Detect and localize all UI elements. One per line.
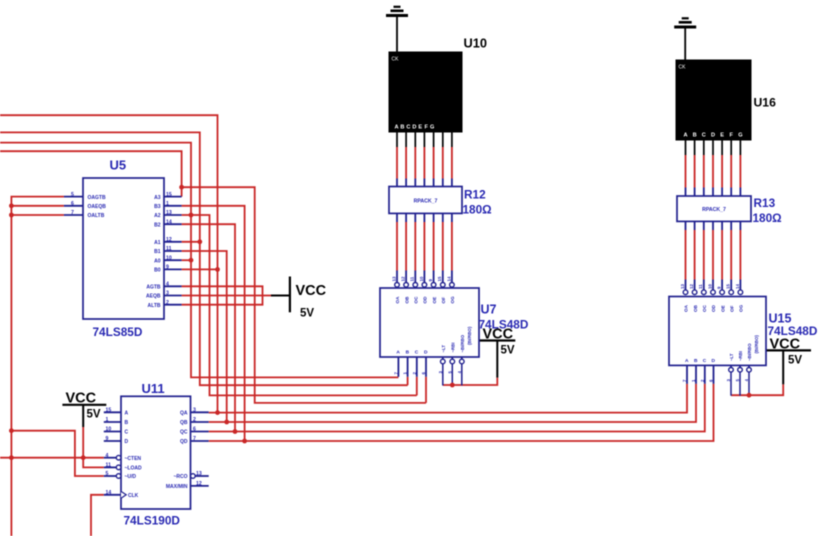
- svg-text:9: 9: [428, 279, 433, 282]
- 7-segment display U10 body: [389, 52, 462, 132]
- svg-text:E: E: [418, 125, 422, 131]
- resistor R13 labels: [753, 196, 782, 225]
- U7 value label 74LS48D: [479, 318, 529, 332]
- wire U5 pin6: [11, 205, 64, 207]
- svg-text:AEQB: AEQB: [146, 294, 161, 300]
- wire bus4 net A3: [0, 151, 182, 196]
- svg-text:F: F: [425, 125, 429, 131]
- svg-text:B3: B3: [154, 204, 161, 210]
- svg-text:B: B: [406, 350, 410, 356]
- svg-text:OE: OE: [432, 297, 437, 304]
- svg-text:~BI/RBO: ~BI/RBO: [747, 343, 752, 361]
- svg-text:F: F: [729, 133, 733, 139]
- U11 value label 74LS190D: [124, 514, 181, 528]
- svg-text:QB: QB: [180, 420, 188, 426]
- svg-text:3: 3: [193, 408, 196, 414]
- svg-text:14: 14: [446, 276, 451, 281]
- wire U7 controls to VCC: [443, 364, 498, 386]
- svg-text:R13: R13: [754, 196, 776, 210]
- wire bus1 net QA to off-page: [0, 115, 218, 412]
- wire QA row to U15 pin A: [209, 384, 687, 413]
- resistor R13 180ohm pack body: [677, 196, 751, 221]
- svg-text:6: 6: [193, 427, 196, 433]
- svg-text:C: C: [415, 350, 419, 356]
- svg-text:CK: CK: [392, 57, 400, 63]
- wire U5 pin5 to left vertical: [11, 197, 64, 536]
- svg-text:180Ω: 180Ω: [463, 203, 492, 217]
- svg-text:1: 1: [166, 201, 169, 207]
- svg-text:D: D: [711, 133, 715, 139]
- svg-text:15: 15: [437, 276, 442, 281]
- svg-text:14: 14: [735, 284, 740, 289]
- svg-text:9: 9: [717, 286, 722, 289]
- resistor R12 180ohm pack body: [389, 187, 462, 214]
- U11 pin labels and numbers: [106, 408, 202, 500]
- IC U15 74LS48D decoder body and pins: [669, 290, 766, 384]
- wire B1 row to QB: [182, 251, 227, 422]
- svg-text:A: A: [685, 358, 689, 364]
- wire B0 row: [182, 268, 218, 270]
- wire to U11 ~U/D: [11, 431, 103, 476]
- svg-text:U11: U11: [142, 381, 165, 396]
- svg-text:~BI/RBO: ~BI/RBO: [460, 334, 465, 352]
- svg-text:14: 14: [166, 219, 172, 225]
- wire A0 row: [182, 259, 191, 261]
- svg-text:U7: U7: [481, 303, 497, 317]
- U7 pin labels and numbers: [391, 276, 472, 374]
- svg-text:OG: OG: [739, 304, 744, 312]
- svg-text:~U/D: ~U/D: [125, 474, 137, 480]
- U16 reference label: [754, 96, 777, 110]
- svg-text:OAEQB: OAEQB: [88, 204, 107, 210]
- svg-text:CLK: CLK: [128, 493, 139, 499]
- U5 value label 74LS85D: [93, 325, 143, 339]
- svg-text:VCC: VCC: [66, 390, 97, 406]
- wire QD row to U15 pin D: [209, 384, 714, 441]
- svg-text:7: 7: [71, 210, 74, 216]
- svg-text:D: D: [424, 350, 428, 356]
- svg-text:74LS48D: 74LS48D: [479, 318, 529, 332]
- svg-text:7: 7: [193, 436, 196, 442]
- svg-text:OF: OF: [729, 305, 734, 312]
- svg-text:D: D: [712, 358, 716, 364]
- svg-text:OB: OB: [693, 304, 698, 312]
- wire bus3 net A2/A0 to U7 pin A: [0, 143, 398, 378]
- svg-text:ALTB: ALTB: [148, 303, 161, 309]
- svg-text:B2: B2: [154, 222, 161, 228]
- wire A3 branch to U7 pin D: [182, 187, 426, 403]
- svg-text:A0: A0: [154, 258, 161, 264]
- U5 pin labels and numbers: [71, 192, 172, 309]
- svg-text:B: B: [400, 125, 404, 131]
- svg-text:~CTEN: ~CTEN: [125, 456, 142, 462]
- svg-text:B: B: [694, 358, 698, 364]
- svg-text:G: G: [430, 125, 434, 131]
- svg-text:AGTB: AGTB: [146, 285, 161, 291]
- svg-text:13: 13: [196, 471, 202, 477]
- svg-text:10: 10: [166, 255, 172, 261]
- U15 reference label: [769, 312, 792, 326]
- wire to U11 ~CTEN: [0, 457, 104, 459]
- svg-text:R12: R12: [464, 188, 486, 202]
- svg-text:74LS190D: 74LS190D: [124, 514, 181, 528]
- svg-text:~LT: ~LT: [729, 353, 734, 361]
- svg-text:~LOAD: ~LOAD: [125, 466, 142, 472]
- svg-text:10: 10: [707, 284, 712, 289]
- svg-text:13: 13: [391, 276, 396, 281]
- svg-text:2: 2: [193, 417, 196, 423]
- svg-text:~RBI: ~RBI: [738, 351, 743, 361]
- svg-text:CK: CK: [679, 65, 687, 71]
- wire U15 controls to VCC: [731, 372, 783, 396]
- svg-text:3: 3: [166, 291, 169, 297]
- wire bus2 net A1 to U7 pin B: [0, 132, 408, 385]
- svg-text:12: 12: [196, 481, 202, 487]
- U15 pin labels and numbers: [680, 284, 759, 382]
- svg-text:1: 1: [106, 417, 109, 423]
- wire B2 row to QC: [182, 224, 235, 431]
- svg-text:OC: OC: [702, 304, 707, 312]
- svg-text:13: 13: [166, 210, 172, 216]
- svg-text:A: A: [125, 411, 129, 417]
- svg-text:4: 4: [106, 453, 109, 459]
- svg-text:RPACK_7: RPACK_7: [702, 207, 726, 213]
- svg-text:13: 13: [680, 284, 685, 289]
- wire U5 pin7: [11, 214, 64, 216]
- wire QC row to U15 pin C: [209, 384, 705, 432]
- svg-text:74LS85D: 74LS85D: [93, 325, 143, 339]
- svg-text:A: A: [396, 350, 400, 356]
- svg-text:QD: QD: [180, 439, 188, 445]
- wire B3 row to QD: [182, 206, 245, 441]
- svg-text:11: 11: [698, 284, 703, 289]
- svg-text:5V: 5V: [501, 345, 515, 357]
- svg-text:E: E: [720, 133, 724, 139]
- VCC symbol at U7: [479, 327, 515, 378]
- U11 reference label: [142, 381, 165, 396]
- svg-text:QC: QC: [180, 430, 188, 436]
- IC U7 74LS48D decoder body and pins: [380, 283, 479, 377]
- svg-text:C: C: [406, 125, 410, 131]
- svg-text:9: 9: [166, 265, 169, 271]
- U5 reference label: [110, 158, 127, 173]
- svg-text:OD: OD: [423, 296, 428, 304]
- svg-text:C: C: [702, 133, 706, 139]
- svg-text:G: G: [738, 133, 742, 139]
- svg-text:5V: 5V: [788, 355, 802, 367]
- svg-text:A1: A1: [154, 240, 161, 246]
- 7-segment display U16 body: [676, 60, 751, 140]
- svg-text:12: 12: [166, 237, 172, 243]
- svg-text:74LS48D: 74LS48D: [768, 324, 818, 338]
- svg-text:A2: A2: [154, 213, 161, 219]
- svg-text:MAX/MIN: MAX/MIN: [166, 484, 188, 490]
- svg-text:OD: OD: [711, 304, 716, 312]
- svg-text:OC: OC: [414, 296, 419, 304]
- svg-text:4: 4: [166, 282, 169, 288]
- U15 value label 74LS48D: [768, 324, 818, 338]
- svg-text:A: A: [394, 125, 398, 131]
- svg-text:A3: A3: [154, 195, 161, 201]
- svg-text:C: C: [703, 358, 707, 364]
- svg-text:(BI/RBO): (BI/RBO): [754, 335, 759, 354]
- svg-text:U16: U16: [754, 96, 777, 110]
- svg-text:B0: B0: [154, 268, 161, 274]
- svg-text:D: D: [125, 439, 129, 445]
- svg-text:B: B: [125, 420, 129, 426]
- svg-text:OF: OF: [441, 297, 446, 304]
- svg-text:D: D: [412, 125, 416, 131]
- svg-text:B: B: [693, 133, 697, 139]
- U7 reference label: [481, 303, 497, 317]
- svg-text:A: A: [683, 133, 687, 139]
- svg-text:5V: 5V: [300, 308, 314, 320]
- wire to U11 CLK: [91, 495, 104, 536]
- wire QB row to U15 pin B: [209, 384, 696, 422]
- svg-text:11: 11: [410, 276, 415, 281]
- svg-text:QA: QA: [180, 411, 188, 417]
- svg-text:15: 15: [106, 408, 112, 414]
- op-amp U5 74LS85D comparator body and pins: [64, 178, 182, 319]
- svg-text:OB: OB: [404, 296, 409, 304]
- wire AGTB-AEQB-ALTB bracket: [182, 286, 271, 304]
- svg-text:5: 5: [106, 471, 109, 477]
- svg-text:9: 9: [106, 436, 109, 442]
- svg-text:5: 5: [71, 192, 74, 198]
- svg-text:~RBI: ~RBI: [450, 343, 455, 353]
- svg-text:OALTB: OALTB: [88, 213, 105, 219]
- U10 reference label: [464, 36, 487, 51]
- svg-text:OA: OA: [684, 304, 689, 312]
- wire A1 row: [182, 241, 200, 243]
- svg-text:OE: OE: [720, 305, 725, 312]
- svg-text:15: 15: [726, 284, 731, 289]
- VCC symbol near U5: [271, 277, 327, 320]
- svg-text:14: 14: [106, 490, 112, 496]
- svg-text:(BI/RBO): (BI/RBO): [467, 326, 472, 345]
- wire U16 to R13 to U15 segment columns: [686, 140, 741, 289]
- svg-text:2: 2: [166, 300, 169, 306]
- VCC symbol at U11: [62, 390, 106, 427]
- svg-text:U10: U10: [464, 36, 487, 51]
- svg-text:C: C: [125, 430, 129, 436]
- svg-text:11: 11: [106, 463, 112, 469]
- svg-text:180Ω: 180Ω: [753, 211, 782, 225]
- svg-text:10: 10: [106, 427, 112, 433]
- svg-text:RPACK_7: RPACK_7: [414, 199, 438, 205]
- svg-text:15: 15: [166, 192, 172, 198]
- VCC symbol at U15: [766, 337, 811, 385]
- svg-text:B1: B1: [154, 249, 161, 255]
- IC U11 74LS190D counter body and pins: [104, 396, 209, 509]
- wire VCC to U11 ~LOAD: [83, 427, 104, 467]
- svg-text:6: 6: [71, 201, 74, 207]
- svg-text:OG: OG: [450, 296, 455, 304]
- ground at U10: [386, 7, 408, 52]
- resistor R12 labels: [463, 188, 492, 217]
- svg-text:10: 10: [419, 276, 424, 281]
- svg-text:~LT: ~LT: [441, 345, 446, 353]
- svg-text:OA: OA: [395, 296, 400, 304]
- svg-text:VCC: VCC: [296, 283, 327, 299]
- wire U10 to R12 to U7 segment columns: [397, 133, 452, 283]
- svg-text:12: 12: [401, 276, 406, 281]
- svg-text:12: 12: [689, 284, 694, 289]
- svg-text:~RCO: ~RCO: [173, 474, 187, 480]
- svg-text:VCC: VCC: [770, 337, 801, 353]
- svg-text:11: 11: [166, 246, 172, 252]
- svg-text:OAGTB: OAGTB: [88, 195, 106, 201]
- wire A2 row to U7 pin C: [182, 215, 417, 395]
- svg-text:U5: U5: [110, 158, 127, 173]
- svg-text:5V: 5V: [87, 409, 101, 421]
- ground at U16: [674, 18, 696, 60]
